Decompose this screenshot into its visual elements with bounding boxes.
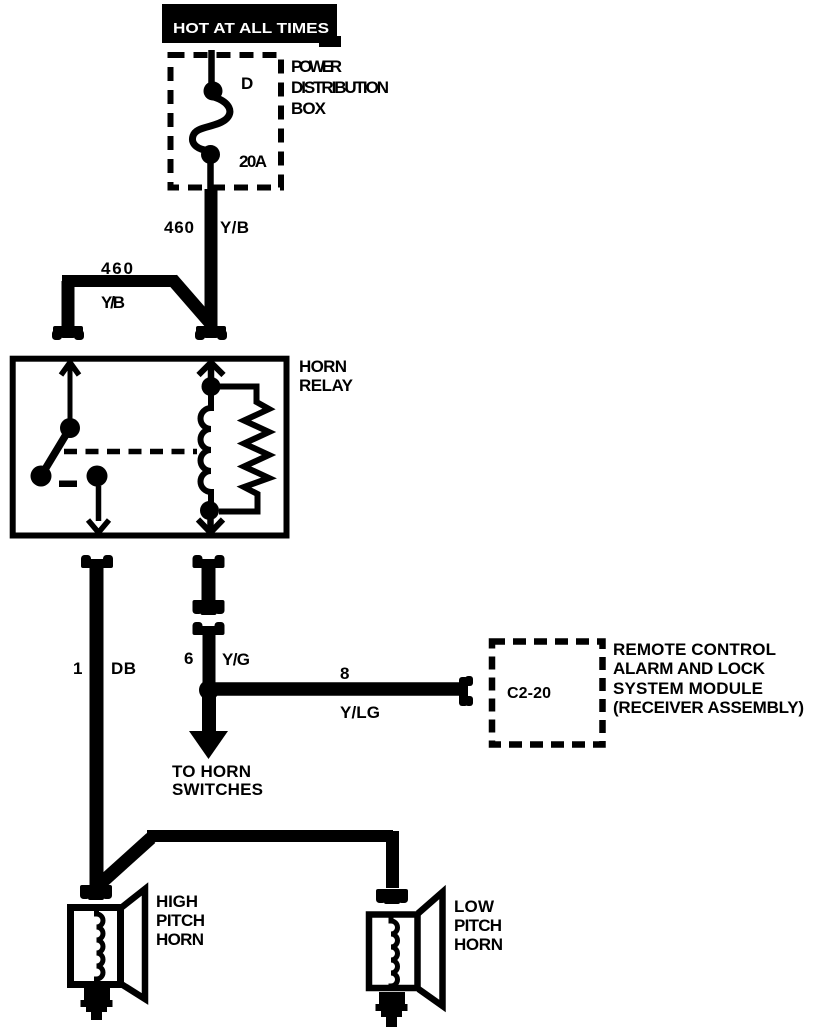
fuse D 20A — [192, 74, 267, 193]
wire down to low pitch horn — [386, 831, 399, 888]
svg-text:460: 460 — [101, 259, 133, 278]
svg-text:HOT AT ALL TIMES: HOT AT ALL TIMES — [173, 20, 329, 37]
svg-text:Y/B: Y/B — [101, 293, 125, 312]
svg-text:DB: DB — [111, 659, 136, 678]
svg-text:DISTRIBUTION: DISTRIBUTION — [291, 78, 389, 97]
dash between contacts — [59, 481, 77, 488]
horn relay box — [13, 359, 287, 536]
remote control module box C2-20 (dashed) — [492, 642, 603, 745]
ground at high pitch horn — [81, 988, 113, 1020]
relay switch armature — [41, 428, 70, 476]
svg-text:Y/LG: Y/LG — [340, 703, 380, 722]
svg-text:LOW: LOW — [454, 897, 495, 916]
label HORN RELAY — [299, 357, 354, 395]
svg-text:Y/B: Y/B — [220, 218, 249, 237]
label 6 Y/G — [184, 649, 250, 669]
svg-text:460: 460 — [164, 218, 194, 237]
connector foot right above relay — [195, 326, 227, 340]
connector crown left below relay — [81, 555, 113, 568]
high pitch horn body — [71, 908, 121, 985]
svg-text:REMOTE CONTROL: REMOTE CONTROL — [613, 640, 776, 659]
svg-text:(RECEIVER ASSEMBLY): (RECEIVER ASSEMBLY) — [613, 698, 804, 717]
relay coil — [201, 392, 212, 503]
label POWER DISTRIBUTION BOX — [291, 57, 389, 118]
svg-text:Y/G: Y/G — [222, 650, 250, 669]
label LOW PITCH HORN — [454, 897, 503, 954]
relay coil top node — [202, 377, 221, 396]
relay switch common dot — [60, 418, 80, 438]
svg-text:C2-20: C2-20 — [507, 685, 551, 702]
wire from output contact down — [96, 486, 102, 521]
junction node — [199, 680, 219, 700]
node HOT AT ALL TIMES banner — [162, 4, 341, 47]
wire 8 Y/LG horizontal — [214, 664, 461, 722]
inline connector lower half — [193, 622, 225, 683]
svg-text:POWER: POWER — [291, 57, 342, 76]
connector foot at high pitch horn — [80, 885, 112, 900]
relay switch contact dot — [31, 466, 52, 487]
relay coil bottom node — [200, 501, 219, 520]
svg-text:20A: 20A — [239, 152, 267, 171]
power distribution box (dashed) — [171, 55, 282, 188]
svg-text:D: D — [241, 74, 253, 93]
inline connector upper half — [193, 555, 225, 615]
wire from banner into fuse — [208, 50, 215, 84]
low pitch horn coil — [391, 913, 398, 991]
svg-text:HIGH: HIGH — [156, 892, 198, 911]
svg-text:BOX: BOX — [291, 99, 327, 118]
svg-text:6: 6 — [184, 649, 193, 668]
relay resistor — [218, 387, 269, 512]
wire diagonal to high pitch horn — [100, 838, 151, 884]
dashed actuation line — [64, 449, 197, 455]
svg-text:PITCH: PITCH — [454, 916, 502, 935]
wire 460 Y/B branch — [62, 259, 212, 328]
svg-text:ALARM AND LOCK: ALARM AND LOCK — [613, 659, 766, 678]
wire to horn switches — [202, 697, 216, 733]
svg-text:HORN: HORN — [299, 357, 347, 376]
svg-text:1: 1 — [73, 659, 82, 678]
relay pin arrow bottom-left — [88, 520, 109, 533]
svg-text:RELAY: RELAY — [299, 376, 354, 395]
wire horn feed horizontal — [147, 830, 393, 842]
svg-text:8: 8 — [340, 664, 349, 683]
relay pin arrow top-right — [199, 361, 224, 380]
svg-text:HORN: HORN — [156, 930, 204, 949]
high pitch horn coil — [97, 906, 104, 987]
svg-text:SWITCHES: SWITCHES — [172, 780, 263, 799]
arrow to horn switches — [189, 731, 228, 759]
low pitch horn body — [369, 915, 418, 989]
label TO HORN SWITCHES — [172, 762, 263, 799]
label REMOTE CONTROL ALARM AND LOCK SYSTEM MODULE (RECEIVER ASSEMBLY) — [613, 640, 804, 717]
relay switch output dot — [87, 466, 108, 487]
connector foot left above relay — [52, 326, 84, 340]
ground at low pitch horn — [376, 992, 408, 1027]
low pitch horn flare — [418, 892, 443, 1006]
label HIGH PITCH HORN — [156, 892, 205, 949]
wire 1 DB — [73, 565, 136, 886]
relay pin arrow bottom-right — [198, 516, 223, 533]
high pitch horn flare — [122, 889, 146, 999]
svg-text:HORN: HORN — [454, 935, 503, 954]
wire 460 Y/B main vertical — [164, 189, 249, 328]
relay pin arrow top-left — [61, 362, 79, 421]
svg-text:SYSTEM MODULE: SYSTEM MODULE — [613, 679, 763, 698]
svg-text:TO HORN: TO HORN — [172, 762, 251, 781]
connector crown right at module — [459, 676, 473, 706]
connector foot at low pitch horn — [376, 889, 408, 904]
svg-text:PITCH: PITCH — [156, 911, 205, 930]
